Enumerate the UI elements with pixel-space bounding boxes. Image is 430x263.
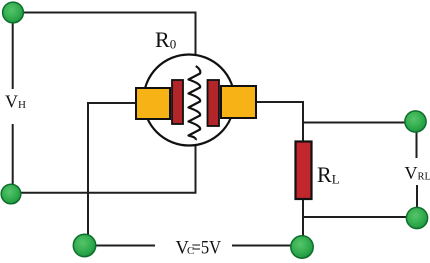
heater terminal block right (yellow) bbox=[221, 86, 256, 118]
resistor RL bbox=[296, 142, 312, 200]
wire: branch to VRL bottom terminal bbox=[303, 216, 408, 218]
terminal VC right bbox=[291, 236, 313, 258]
wire: heater left lead down to VC terminal bbox=[88, 103, 137, 240]
svg-text:VRL: VRL bbox=[405, 163, 430, 183]
svg-text:R0: R0 bbox=[155, 27, 176, 52]
wire: RL bottom down to VC terminal bbox=[302, 199, 304, 240]
wire: VRL wire upper segment bbox=[416, 130, 418, 158]
wire: branch to VRL top terminal bbox=[303, 122, 407, 124]
svg-text:=5V: =5V bbox=[192, 239, 222, 259]
svg-text:VH: VH bbox=[5, 92, 26, 112]
wire: bottom VC wire right of label bbox=[232, 245, 302, 247]
wire: top wire from VH+ terminal to sensor top bbox=[13, 13, 196, 71]
terminal VH top bbox=[3, 2, 24, 23]
heater terminal block left (yellow) bbox=[136, 88, 170, 119]
wire: heater right lead to RL top bbox=[255, 102, 303, 142]
terminal VH bottom bbox=[1, 184, 21, 204]
terminal VRL bottom bbox=[406, 207, 427, 228]
wire: sensor bottom to lower-left terminal bbox=[13, 138, 196, 193]
wire: bottom VC wire left of label bbox=[94, 245, 155, 247]
heater coil inside sensor bbox=[189, 66, 201, 140]
electrode right (dark red) bbox=[208, 80, 220, 126]
electrode left (dark red) bbox=[172, 80, 183, 124]
wire: left VH wire upper segment bbox=[12, 14, 14, 89]
terminal VC left bbox=[73, 234, 95, 256]
wire: VRL wire lower segment bbox=[416, 185, 418, 210]
sensor body circle bbox=[144, 55, 235, 146]
terminal VRL top bbox=[405, 111, 426, 132]
wire: left VH wire lower segment bbox=[12, 124, 14, 190]
svg-text:RL: RL bbox=[317, 162, 340, 187]
